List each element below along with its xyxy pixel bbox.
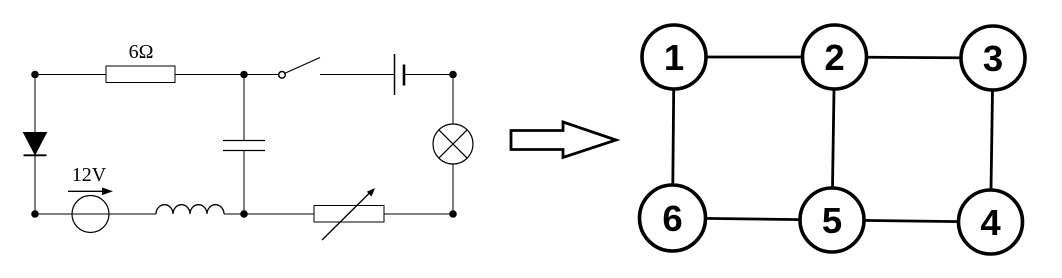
node D junction dot (240, 210, 248, 218)
graph edge 5-4 (832, 220, 991, 222)
wire rheostat to node E (384, 213, 453, 215)
svg-text:2: 2 (824, 37, 844, 78)
node A junction dot (31, 71, 39, 79)
svg-text:1: 1 (664, 37, 684, 78)
svg-text:12V: 12V (72, 164, 107, 186)
node C junction dot (449, 71, 457, 79)
node B junction dot (240, 71, 248, 79)
wire right vertical upper (node C to lamp) (452, 75, 454, 125)
graph edge 2-5 (832, 57, 835, 220)
graph node 4 (959, 190, 1023, 254)
wire middle vertical upper (node B to capacitor) (243, 75, 245, 141)
wire lamp to node E (452, 164, 454, 215)
voltage source V1 current direction arrow (68, 188, 113, 196)
svg-text:6Ω: 6Ω (129, 41, 154, 63)
wire battery to node C (404, 74, 453, 76)
wire switch to battery (320, 74, 394, 76)
wire left vertical (node A down) (34, 75, 36, 215)
battery B1 long plate (394, 54, 396, 95)
lamp X1 envelope (433, 124, 473, 164)
graph node 1 (642, 25, 706, 89)
graph node 2 (803, 25, 867, 89)
svg-text:6: 6 (662, 198, 682, 239)
graph edge 1-2 (674, 56, 835, 59)
wire top-left horizontal (node A to resistor) (35, 74, 107, 76)
node E junction dot (449, 210, 457, 218)
wire inductor to node D (224, 213, 244, 215)
wire node D to rheostat (244, 213, 314, 215)
capacitor C1 top plate (223, 140, 265, 142)
diode D1 cathode bar (24, 154, 47, 156)
graph edge 6-5 (673, 218, 833, 220)
switch S1 lever arm (286, 58, 321, 74)
inductor L1 (156, 205, 224, 214)
graph node 5 (800, 188, 864, 252)
wire node B to switch (244, 74, 279, 76)
svg-text:4: 4 (980, 202, 1001, 243)
transformation arrow (circuit to graph) (511, 122, 616, 158)
switch S1 pivot contact (279, 72, 286, 79)
node F junction dot (31, 210, 39, 218)
graph edge 2-3 (835, 57, 994, 58)
graph edge 3-4 (991, 58, 994, 222)
diode D1 anode triangle (24, 133, 47, 155)
capacitor C1 bottom plate (223, 150, 265, 152)
resistor R1 6ohm body (106, 66, 175, 83)
wire middle vertical lower (capacitor to node D) (243, 151, 245, 214)
voltage source V1 circle (72, 196, 109, 233)
graph node 3 (961, 26, 1025, 90)
wire bottom-left to source (35, 213, 156, 215)
wire resistor to node B (175, 74, 244, 76)
battery B1 short plate (403, 65, 406, 86)
lamp X1 cross line 1 (439, 130, 467, 158)
svg-text:5: 5 (822, 200, 842, 241)
graph edge 1-6 (673, 57, 675, 218)
rheostat R2 adjustment arrow (322, 188, 375, 240)
graph node 6 (640, 185, 706, 251)
rheostat R2 body (314, 206, 384, 223)
svg-text:3: 3 (983, 38, 1003, 79)
lamp X1 cross line 2 (439, 130, 467, 158)
